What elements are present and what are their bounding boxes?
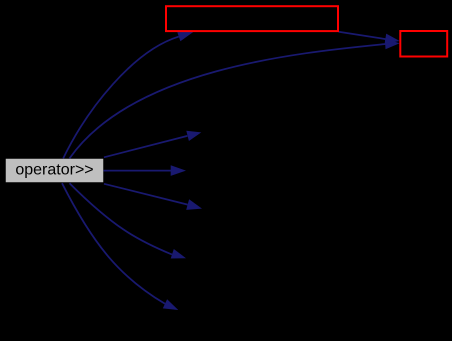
- svg-text:operator>>: operator>>: [15, 162, 93, 179]
